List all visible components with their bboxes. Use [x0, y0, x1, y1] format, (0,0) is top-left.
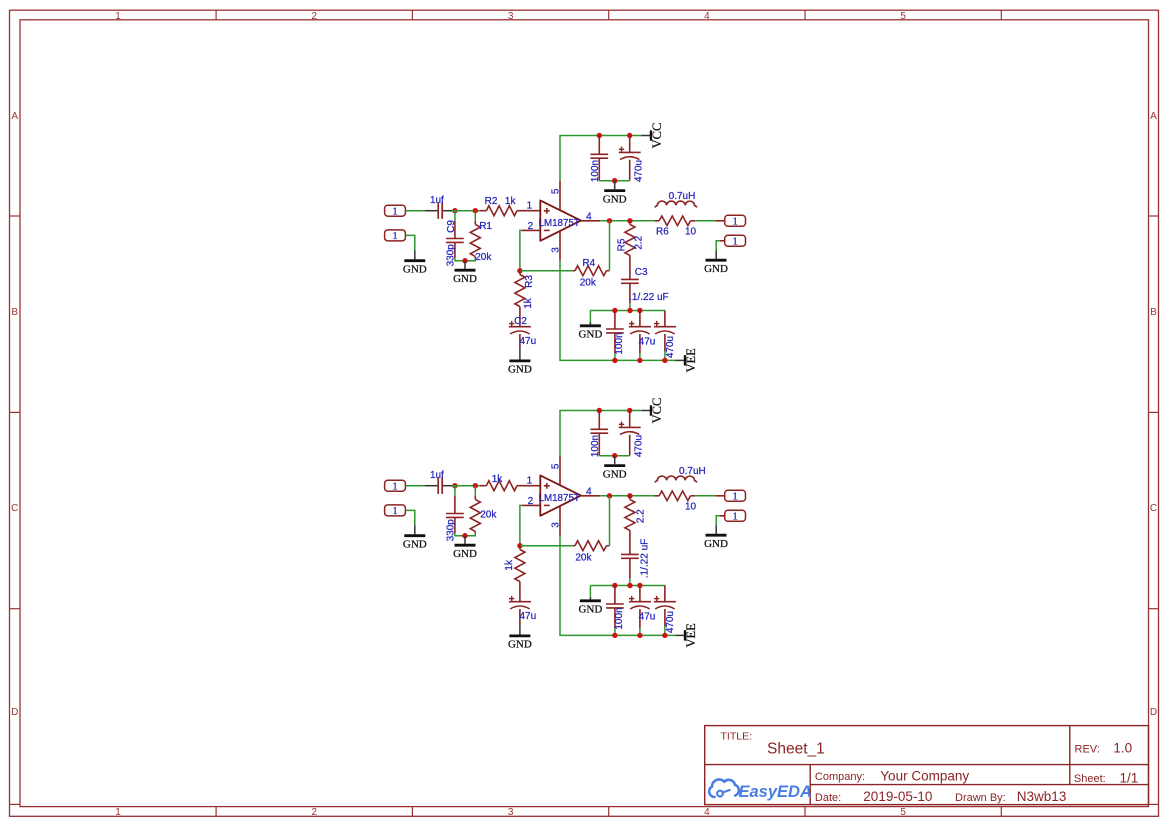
node FB junction	[517, 268, 522, 273]
svg-text:470u: 470u	[633, 160, 644, 182]
svg-text:GND: GND	[578, 329, 602, 341]
svg-text:1: 1	[392, 506, 397, 517]
capacitor 100n (VCC)	[590, 136, 608, 181]
svg-text:1/1: 1/1	[1120, 770, 1139, 785]
wire	[695, 220, 715, 222]
node junction	[662, 358, 667, 363]
pin 4 label	[586, 211, 592, 222]
power VCC	[641, 123, 664, 149]
pin 3 label	[550, 247, 561, 253]
wire	[452, 210, 480, 212]
wire	[695, 495, 715, 497]
wire	[609, 496, 611, 546]
svg-text:1k: 1k	[504, 559, 515, 571]
wire pin2	[522, 229, 540, 231]
label 10	[685, 227, 697, 238]
wire	[639, 353, 641, 360]
svg-text:Sheet:: Sheet:	[1074, 773, 1106, 785]
label 470u	[633, 435, 644, 457]
svg-text:47u: 47u	[519, 611, 536, 622]
capacitor 47u (VEE)	[629, 311, 651, 354]
svg-text:GND: GND	[508, 639, 532, 651]
svg-text:VEE: VEE	[684, 623, 698, 648]
svg-text:2019-05-10: 2019-05-10	[863, 789, 932, 804]
EasyEDA logo	[709, 779, 812, 800]
ground	[578, 322, 602, 341]
svg-text:470u: 470u	[665, 336, 676, 358]
svg-text:GND: GND	[578, 604, 602, 616]
label 330p	[446, 519, 457, 542]
port P_GNDIN (net 1)	[385, 505, 406, 517]
title block	[705, 726, 1149, 805]
label 470u	[665, 336, 676, 358]
power VEE	[675, 348, 698, 373]
node junction	[612, 633, 617, 638]
power VCC	[641, 398, 664, 424]
svg-text:5: 5	[900, 11, 906, 22]
label LM1875T	[539, 218, 580, 229]
svg-text:4: 4	[704, 807, 710, 818]
ground	[603, 181, 627, 206]
label 1k	[492, 474, 504, 485]
capacitor 100n (VEE)	[606, 586, 624, 629]
node junction	[627, 308, 632, 313]
svg-text:D: D	[11, 707, 18, 718]
svg-text:20k: 20k	[575, 552, 592, 563]
pin 2 label	[528, 221, 534, 232]
svg-text:20k: 20k	[480, 509, 497, 520]
svg-text:47u: 47u	[639, 612, 656, 623]
label 1uf	[430, 470, 444, 481]
svg-text:R6: R6	[656, 226, 669, 237]
node junction	[637, 308, 642, 313]
node junction	[627, 408, 632, 413]
svg-text:1.0: 1.0	[1113, 741, 1132, 756]
svg-text:.1/.22 uF: .1/.22 uF	[640, 539, 651, 578]
svg-text:R4: R4	[582, 258, 595, 269]
pin 5 label	[550, 463, 561, 469]
svg-text:GND: GND	[704, 538, 728, 550]
pin 3 lead	[559, 231, 561, 260]
wire	[599, 455, 629, 457]
svg-text:Your Company: Your Company	[880, 769, 969, 784]
wire	[629, 303, 631, 310]
node GND junction	[462, 258, 467, 263]
svg-text:1: 1	[392, 206, 397, 217]
port P_OUT (net 1)	[716, 215, 746, 227]
svg-text:N3wb13: N3wb13	[1017, 789, 1067, 804]
svg-text:LM1875T: LM1875T	[539, 493, 580, 504]
label R3	[524, 275, 535, 288]
svg-text:VEE: VEE	[684, 348, 698, 373]
label 100n	[590, 435, 601, 457]
capacitor 470u (VEE)	[654, 586, 676, 627]
label 20k	[480, 509, 497, 520]
label 470u	[633, 160, 644, 182]
port P_GNDOUT (net 1)	[720, 235, 746, 247]
label R4	[582, 258, 595, 269]
svg-text:2.2: 2.2	[636, 509, 647, 523]
capacitor 100n (VEE)	[606, 311, 624, 354]
port P_IN (net 1)	[385, 480, 406, 492]
pin 2 label	[528, 496, 534, 507]
svg-text:1k: 1k	[492, 474, 504, 485]
capacitor 47u	[509, 596, 531, 625]
resistor R2 1k	[480, 206, 540, 216]
capacitor 470u (VCC)	[619, 411, 641, 456]
ground	[453, 536, 477, 560]
label 10	[685, 502, 697, 513]
resistor 2.2	[625, 496, 635, 554]
svg-text:C: C	[1150, 503, 1157, 514]
label 20k	[475, 252, 492, 263]
wire	[599, 180, 629, 182]
label 0.7uH	[679, 466, 706, 477]
label 2.2	[636, 509, 647, 523]
port P_GNDOUT (net 1)	[720, 510, 746, 522]
wire VEE drop	[560, 536, 675, 636]
resistor R6 10	[655, 216, 696, 226]
label 47u	[519, 611, 536, 622]
svg-text:100n: 100n	[614, 332, 625, 354]
node junction	[612, 178, 617, 183]
ground	[403, 250, 427, 275]
svg-text:R5: R5	[617, 238, 628, 251]
power VEE	[675, 623, 698, 648]
svg-text:GND: GND	[453, 273, 477, 285]
label 2.2	[633, 235, 644, 249]
ground	[403, 525, 427, 550]
capacitor 47u (VEE)	[629, 586, 651, 629]
node junction	[662, 633, 667, 638]
inductor 0.7uH	[655, 201, 697, 207]
svg-text:GND: GND	[508, 364, 532, 376]
resistor R3 1k	[515, 271, 525, 327]
svg-text:0.7uH: 0.7uH	[669, 191, 696, 202]
svg-text:A: A	[1150, 111, 1157, 122]
svg-text:20k: 20k	[580, 277, 597, 288]
node junction	[597, 133, 602, 138]
node junction	[612, 308, 617, 313]
node B junction	[473, 208, 478, 213]
svg-text:2.2: 2.2	[633, 235, 644, 249]
label R5	[617, 238, 628, 251]
svg-text:REV:: REV:	[1075, 744, 1100, 756]
label 1k	[504, 559, 515, 571]
label R6	[656, 226, 669, 237]
label 20k	[575, 552, 592, 563]
svg-text:GND: GND	[403, 264, 427, 276]
svg-text:GND: GND	[453, 548, 477, 560]
svg-text:Company:: Company:	[815, 771, 865, 783]
node junction	[612, 358, 617, 363]
label 100n	[590, 160, 601, 182]
wire	[614, 353, 616, 360]
pin 3 label	[550, 522, 561, 528]
node junction	[637, 583, 642, 588]
node GND junction	[462, 533, 467, 538]
pin 1 label	[527, 476, 533, 487]
node FB junction	[517, 543, 522, 548]
wire	[454, 486, 456, 496]
port P_IN (net 1)	[385, 205, 406, 217]
wire	[520, 270, 573, 272]
svg-text:330p: 330p	[446, 519, 457, 542]
pin 5 lead	[559, 181, 561, 210]
wire	[716, 241, 720, 251]
svg-text:1: 1	[732, 216, 737, 227]
svg-text:1: 1	[115, 11, 121, 22]
svg-text:10: 10	[685, 227, 697, 238]
label C3	[635, 267, 648, 278]
wire output	[600, 495, 655, 497]
svg-text:C3: C3	[635, 267, 648, 278]
wire	[520, 505, 522, 545]
svg-text:100n: 100n	[614, 607, 625, 629]
node A junction	[452, 208, 457, 213]
ground	[508, 349, 532, 375]
label R1	[479, 221, 492, 232]
wire	[452, 485, 480, 487]
svg-text:1uf: 1uf	[430, 195, 444, 206]
ground	[453, 261, 477, 285]
resistor 10	[655, 491, 696, 501]
wire	[589, 311, 591, 323]
label LM1875T	[539, 493, 580, 504]
node junction	[627, 583, 632, 588]
svg-text:VCC: VCC	[650, 123, 664, 149]
svg-text:TITLE:: TITLE:	[721, 731, 753, 743]
inductor 0.7uH	[655, 476, 697, 482]
svg-text:330p: 330p	[446, 244, 457, 267]
svg-text:R2: R2	[485, 196, 498, 207]
svg-text:1k: 1k	[523, 297, 534, 309]
capacitor 470u (VCC)	[619, 136, 641, 181]
svg-text:1: 1	[527, 201, 533, 212]
svg-text:D: D	[1150, 707, 1157, 718]
label 47u	[519, 336, 536, 347]
resistor 20k	[470, 496, 480, 534]
label 470u	[665, 611, 676, 633]
port P_GNDIN (net 1)	[385, 230, 406, 242]
svg-text:100n: 100n	[590, 160, 601, 182]
pin 5 lead	[559, 456, 561, 485]
resistor 20k (feedback)	[573, 541, 610, 551]
wire	[716, 516, 720, 526]
wire	[639, 628, 641, 635]
port P_OUT (net 1)	[716, 490, 746, 502]
label C2	[514, 316, 527, 327]
capacitor 470u (VEE)	[654, 311, 676, 352]
label 1k	[505, 196, 517, 207]
svg-text:47u: 47u	[519, 336, 536, 347]
wire VEE cap rail	[590, 310, 665, 312]
svg-text:1: 1	[732, 511, 737, 522]
capacitor C3 .1/.22uF (Zobel)	[621, 279, 639, 303]
capacitor 100n (VCC)	[590, 411, 608, 456]
svg-text:R1: R1	[479, 221, 492, 232]
svg-text:1: 1	[732, 236, 737, 247]
wire	[455, 258, 475, 261]
label .1/.22 uF	[640, 539, 651, 578]
node junction	[637, 358, 642, 363]
wire	[614, 628, 616, 635]
svg-text:0.7uH: 0.7uH	[679, 466, 706, 477]
svg-text:B: B	[11, 307, 18, 318]
svg-text:20k: 20k	[475, 252, 492, 263]
svg-text:2: 2	[312, 11, 318, 22]
wire	[520, 230, 522, 270]
label 330p	[446, 244, 457, 267]
node junction	[627, 218, 632, 223]
label 47u	[639, 612, 656, 623]
resistor 1k	[480, 481, 540, 491]
svg-text:1: 1	[732, 491, 737, 502]
wire VCC rail	[560, 411, 641, 456]
svg-text:C9: C9	[446, 220, 457, 233]
svg-text:C: C	[11, 503, 18, 514]
label 100n	[614, 607, 625, 629]
resistor R4 20k (feedback)	[573, 266, 610, 276]
pin 5 label	[550, 188, 561, 194]
op-amp U LM1875T	[540, 200, 581, 240]
node junction	[627, 133, 632, 138]
wire	[664, 626, 666, 635]
node junction	[612, 583, 617, 588]
wire	[406, 510, 415, 525]
node junction	[637, 633, 642, 638]
svg-text:1: 1	[392, 481, 397, 492]
pin 4 lead	[581, 220, 600, 222]
wire	[474, 486, 476, 496]
svg-text:1k: 1k	[505, 196, 517, 207]
svg-text:10: 10	[685, 502, 697, 513]
wire	[406, 235, 415, 250]
capacitor 1uf input	[425, 478, 452, 494]
label 0.7uH	[669, 191, 696, 202]
capacitor C2 47u	[509, 321, 531, 350]
svg-text:47u: 47u	[639, 337, 656, 348]
wire pin2	[522, 504, 540, 506]
ground	[578, 597, 602, 616]
wire	[609, 221, 611, 271]
svg-text:3: 3	[508, 11, 514, 22]
resistor R5 2.2	[625, 221, 635, 279]
label 100n	[614, 332, 625, 354]
svg-text:Drawn By:: Drawn By:	[955, 792, 1006, 804]
label 1k	[523, 297, 534, 309]
op-amp U LM1875T	[540, 475, 581, 515]
wire VCC rail	[560, 136, 641, 181]
svg-text:A: A	[11, 111, 18, 122]
ground	[704, 525, 728, 550]
node junction	[627, 493, 632, 498]
label C9	[446, 220, 457, 233]
resistor R1 20k	[470, 221, 480, 259]
ground	[508, 624, 532, 650]
svg-text:LM1875T: LM1875T	[539, 218, 580, 229]
svg-text:.1/.22 uF: .1/.22 uF	[629, 292, 668, 303]
svg-text:470u: 470u	[665, 611, 676, 633]
wire	[406, 485, 425, 487]
svg-text:1: 1	[392, 231, 397, 242]
node B junction	[473, 483, 478, 488]
svg-text:Sheet_1: Sheet_1	[767, 741, 825, 758]
svg-text:1: 1	[115, 807, 121, 818]
svg-text:GND: GND	[403, 539, 427, 551]
wire	[455, 533, 475, 536]
svg-text:EasyEDA: EasyEDA	[739, 783, 812, 801]
node OUT junction	[607, 493, 612, 498]
label 47u	[639, 337, 656, 348]
svg-text:GND: GND	[704, 263, 728, 275]
wire	[474, 211, 476, 221]
pin 4 label	[586, 486, 592, 497]
svg-text:C2: C2	[514, 316, 527, 327]
wire VEE drop	[560, 261, 675, 361]
capacitor .1/.22uF (Zobel)	[621, 554, 639, 578]
svg-text:1: 1	[527, 476, 533, 487]
svg-text:GND: GND	[603, 468, 627, 480]
capacitor C9 330p	[446, 221, 464, 259]
svg-text:4: 4	[704, 11, 710, 22]
label R2	[485, 196, 498, 207]
svg-text:R3: R3	[524, 275, 535, 288]
svg-text:B: B	[1150, 307, 1157, 318]
ground	[603, 456, 627, 481]
wire	[589, 586, 591, 598]
node OUT junction	[607, 218, 612, 223]
label 1uf	[430, 195, 444, 206]
svg-text:1uf: 1uf	[430, 470, 444, 481]
capacitor 330p	[446, 496, 464, 534]
pin 1 label	[527, 201, 533, 212]
wire VEE cap rail	[590, 585, 665, 587]
node A junction	[452, 483, 457, 488]
wire	[664, 351, 666, 360]
node junction	[597, 408, 602, 413]
svg-text:VCC: VCC	[650, 398, 664, 424]
wire	[406, 210, 425, 212]
svg-text:3: 3	[508, 807, 514, 818]
pin 4 lead	[581, 495, 600, 497]
node junction	[612, 453, 617, 458]
label .1/.22 uF	[629, 292, 668, 303]
wire	[520, 545, 573, 547]
svg-text:Date:: Date:	[815, 792, 841, 804]
svg-text:GND: GND	[603, 193, 627, 205]
ground	[704, 250, 728, 275]
wire	[454, 211, 456, 221]
wire output	[600, 220, 655, 222]
svg-text:470u: 470u	[633, 435, 644, 457]
label 20k	[580, 277, 597, 288]
svg-text:2: 2	[312, 807, 318, 818]
wire	[629, 578, 631, 585]
resistor 1k	[515, 546, 525, 602]
pin 3 lead	[559, 506, 561, 535]
svg-text:5: 5	[900, 807, 906, 818]
svg-text:100n: 100n	[590, 435, 601, 457]
capacitor 1uf input	[425, 203, 452, 219]
